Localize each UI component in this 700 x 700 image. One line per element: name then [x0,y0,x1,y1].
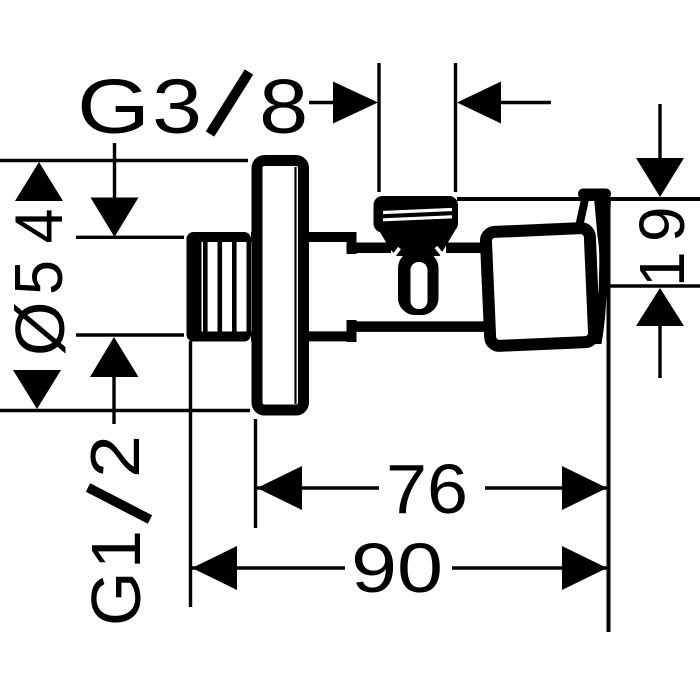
dimension G3/8 label [77,63,308,150]
wall flange (rosette) [257,161,304,411]
svg-text:2: 2 [76,435,154,478]
handle lever left edge stroke [579,197,586,227]
valve male thread G1/2 body [187,232,252,342]
dimension 76 left extension line [254,419,257,528]
dimension G1/2 label [76,435,155,626]
dimension 19 lower arrowhead (up) [636,288,684,326]
svg-text:1: 1 [77,530,155,569]
outlet compression nut [374,196,459,233]
svg-text:5: 5 [1,260,77,295]
dimension G1/2 lower leader stem [112,377,115,424]
step between tube A and body [347,232,357,254]
valve tube A (G1/2 pipe through flange) [251,232,353,242]
svg-text:1: 1 [626,251,698,287]
dimension G3/8 right arrowhead (left) [457,82,501,124]
dimension 76 line left segment [256,486,379,489]
dimension 90 right arrowhead [562,546,607,590]
white separation slashes [389,248,400,262]
flange inner face line [294,167,296,404]
svg-text:9: 9 [626,206,698,242]
outlet sleeve (oval) [398,251,439,315]
dimension 19 label [626,206,698,287]
dimension 76 right arrowhead [562,466,607,510]
dimension Ø54 bottom extension line [0,409,250,412]
thread hatch lines [203,242,208,332]
dimension 76 left arrowhead [257,466,302,510]
handle body [486,228,595,346]
svg-text:G: G [77,64,150,150]
dimension G3/8 left extension line [377,63,380,192]
dimension Ø54 label [1,209,79,357]
dimension 19 top extension line [457,197,700,201]
dimension G3/8 left stem [309,101,338,104]
svg-text:8: 8 [259,63,308,149]
svg-text:90: 90 [351,529,443,607]
dimension Ø54 top extension line [0,159,248,162]
dimension 90 line right segment [452,566,607,569]
dimension 90 line left segment [192,566,345,569]
handle lever cap [578,189,611,200]
svg-text:3: 3 [152,63,202,149]
dimension Ø54 bottom arrowhead [13,370,61,409]
svg-text:4: 4 [1,209,77,244]
dimension 90/76 right extension line [607,200,611,632]
valve body tube top edge [352,243,391,254]
svg-text:Ø: Ø [1,302,79,356]
dimension 90 left arrowhead [192,546,237,590]
dimension G1/2 lower arrowhead (up) [90,337,139,377]
handle lever blade [592,199,612,345]
dimension G3/8 right extension line [454,63,457,192]
dimension G1/2 upper leader stem [113,143,116,199]
dimension G1/2 upper target line [76,236,184,239]
svg-text:76: 76 [386,450,468,528]
valve body tube bottom edge [352,321,492,332]
dimension Ø54 top arrowhead [15,162,63,201]
dimension 19 upper stem [658,104,661,160]
dimension 76 line right segment [485,486,607,489]
dimension G1/2 lower target line [76,333,184,336]
dimension 19 upper arrowhead (down) [636,158,684,197]
svg-text:G: G [77,572,155,626]
dimension 19 lower stem [658,326,661,378]
dimension G1/2 upper arrowhead (down) [91,198,139,238]
dimension G3/8 right stem [501,101,551,104]
dimension 90 left extension line [189,341,192,607]
outlet funnel [378,228,457,256]
dimension 19 bottom extension line [604,284,700,287]
dimension G3/8 left arrowhead (right) [333,82,378,124]
